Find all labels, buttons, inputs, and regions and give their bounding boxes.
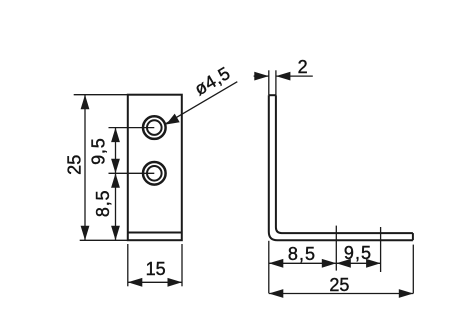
svg-text:8,5: 8,5 xyxy=(93,190,113,217)
svg-text:15: 15 xyxy=(146,259,166,279)
svg-text:9,5: 9,5 xyxy=(344,243,372,263)
svg-text:9,5: 9,5 xyxy=(89,137,109,164)
svg-text:2: 2 xyxy=(298,57,308,77)
svg-text:8,5: 8,5 xyxy=(288,244,316,264)
svg-text:25: 25 xyxy=(329,275,349,295)
svg-text:ø4,5: ø4,5 xyxy=(191,63,234,100)
svg-text:25: 25 xyxy=(65,155,85,175)
